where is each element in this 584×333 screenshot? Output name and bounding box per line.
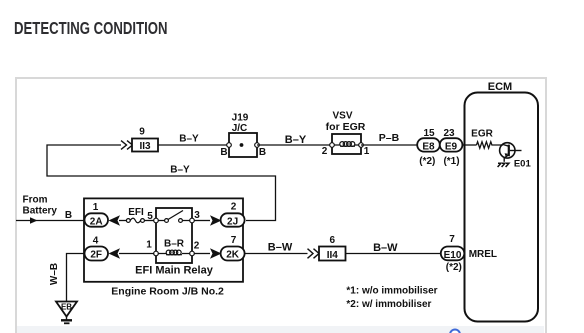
- wire VSV to E8: [361, 144, 418, 146]
- relay pin 1: [146, 240, 158, 256]
- ECM box: [465, 81, 539, 322]
- EFI main relay box: [156, 208, 192, 263]
- svg-text:EFI Main Relay: EFI Main Relay: [135, 265, 214, 277]
- relay pin 3: [190, 210, 201, 223]
- svg-text:B–W: B–W: [268, 242, 293, 254]
- svg-text:*2: w/ immobiliser: *2: w/ immobiliser: [346, 299, 431, 310]
- harness arrow at 2F: [109, 248, 121, 258]
- zoom control icon (cut off at bottom): [450, 330, 460, 333]
- ground EB: [56, 302, 77, 324]
- svg-text:MREL: MREL: [469, 249, 497, 260]
- svg-text:EFI: EFI: [128, 207, 144, 218]
- svg-text:9: 9: [139, 127, 145, 138]
- svg-text:W–B: W–B: [49, 263, 60, 285]
- connector II4: [319, 235, 346, 261]
- connector pin E10: [441, 234, 465, 273]
- svg-text:2: 2: [231, 202, 237, 213]
- svg-text:5: 5: [147, 211, 153, 222]
- wire II3 to J/C: [158, 144, 229, 146]
- harness arrow at 2J: [210, 215, 222, 225]
- svg-text:II4: II4: [327, 250, 339, 261]
- svg-text:for EGR: for EGR: [326, 121, 366, 133]
- wire battery feed: [16, 217, 85, 224]
- connector pin 2A: [85, 202, 109, 228]
- ground marks E01: [498, 163, 509, 167]
- svg-text:1: 1: [364, 146, 370, 157]
- svg-text:2: 2: [322, 146, 328, 157]
- connector II3: [132, 127, 158, 153]
- harness arrow at 2A: [109, 215, 121, 225]
- resistor (EGR driver): [477, 142, 504, 148]
- svg-text:Battery: Battery: [23, 206, 58, 217]
- svg-text:2J: 2J: [227, 217, 238, 228]
- svg-text:EB: EB: [61, 303, 72, 312]
- connector pin E9: [440, 128, 463, 167]
- svg-text:J19: J19: [232, 113, 249, 124]
- svg-text:B–W: B–W: [373, 242, 398, 254]
- svg-text:3: 3: [194, 210, 200, 221]
- svg-text:From: From: [23, 195, 48, 206]
- svg-text:1: 1: [93, 202, 99, 213]
- wire W-B from 2F to ground: [67, 254, 85, 302]
- relay pin 5: [147, 211, 158, 223]
- svg-text:B–Y: B–Y: [285, 134, 307, 146]
- connector arrows >> before II3: [121, 141, 133, 150]
- VSV for EGR: [322, 111, 370, 158]
- wire fuse to relay pin5: [144, 220, 153, 222]
- svg-text:P–B: P–B: [379, 132, 400, 144]
- svg-text:(*2): (*2): [419, 156, 435, 167]
- wire 2K to II4: [245, 253, 308, 255]
- svg-text:E8: E8: [422, 142, 435, 153]
- svg-text:(*1): (*1): [443, 156, 459, 167]
- wire B-Y top left U-path: [47, 145, 276, 221]
- harness arrow at 2K: [210, 248, 222, 258]
- svg-text:B: B: [259, 147, 266, 158]
- wire E9 to resistor: [462, 144, 476, 146]
- svg-text:15: 15: [423, 128, 435, 139]
- wire pin2 to 2K: [194, 253, 210, 255]
- connector arrows >> before II4: [308, 249, 320, 259]
- connector pin E8: [417, 128, 440, 167]
- svg-text:Engine Room J/B No.2: Engine Room J/B No.2: [111, 286, 224, 298]
- svg-text:4: 4: [93, 236, 99, 247]
- Engine Room J/B No.2 box: [84, 198, 243, 297]
- figure border box: [15, 77, 547, 333]
- svg-text:E01: E01: [514, 158, 532, 169]
- wire J/C to VSV: [257, 144, 332, 146]
- transistor Q (EGR output): [500, 143, 522, 162]
- svg-text:2F: 2F: [90, 250, 102, 261]
- svg-text:(*2): (*2): [446, 262, 462, 273]
- title: [14, 20, 168, 38]
- svg-text:VSV: VSV: [332, 111, 352, 122]
- svg-text:B–R: B–R: [164, 239, 185, 250]
- connector pin 2K: [221, 235, 245, 261]
- svg-text:2A: 2A: [90, 217, 103, 228]
- svg-text:EGR: EGR: [471, 129, 493, 140]
- connector pin 2J: [221, 202, 245, 228]
- wire pin3 to 2J: [194, 220, 210, 222]
- label From Battery: [23, 195, 58, 217]
- gray strip below figure: [17, 326, 544, 333]
- svg-text:B: B: [65, 210, 72, 221]
- svg-text:ECM: ECM: [488, 81, 512, 93]
- wire 2A to fuse: [119, 220, 127, 222]
- svg-text:J/C: J/C: [232, 123, 248, 134]
- svg-text:B–Y: B–Y: [170, 165, 190, 176]
- relay pin 2: [190, 241, 200, 256]
- svg-text:6: 6: [330, 235, 336, 246]
- svg-text:E9: E9: [445, 142, 458, 153]
- svg-text:E10: E10: [444, 250, 462, 261]
- svg-text:B–Y: B–Y: [179, 134, 199, 145]
- svg-text:7: 7: [231, 235, 237, 246]
- svg-text:*1: w/o immobiliser: *1: w/o immobiliser: [346, 286, 437, 297]
- wire 2F to relay pin 1: [119, 253, 154, 255]
- connector pin 2F: [85, 236, 109, 261]
- relay switch: [158, 211, 189, 223]
- wire II4 to E10: [346, 253, 441, 255]
- svg-text:2K: 2K: [226, 250, 240, 261]
- svg-text:B: B: [220, 147, 227, 158]
- fuse EFI: [126, 207, 144, 223]
- relay coil: [158, 250, 189, 255]
- junction connector J19 J/C: [220, 113, 266, 159]
- svg-text:23: 23: [443, 128, 455, 139]
- svg-text:II3: II3: [139, 141, 151, 152]
- svg-text:2: 2: [194, 241, 200, 252]
- svg-text:7: 7: [449, 234, 455, 245]
- svg-text:1: 1: [146, 240, 152, 251]
